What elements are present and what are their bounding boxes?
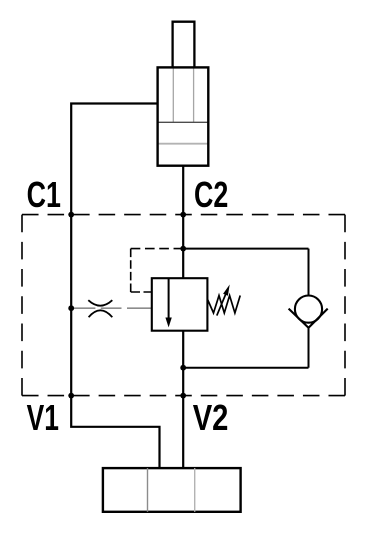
wire from C2 pilot node to check valve top bbox=[183, 248, 308, 250]
node C1 (junction dot) bbox=[68, 212, 74, 218]
check valve ball bbox=[295, 296, 322, 323]
manifold block bbox=[103, 468, 241, 512]
valve envelope (dashed boundary box) bbox=[22, 215, 345, 396]
counterbalance valve body (square) bbox=[152, 278, 208, 331]
svg-text:V2: V2 bbox=[193, 397, 229, 438]
flow arrow inside valve bbox=[165, 278, 171, 327]
node V2 (junction dot) bbox=[180, 393, 186, 399]
pilot drain line (gray dashed) from C1 line through orifice to valve bbox=[71, 307, 152, 309]
orifice (restrictor arcs) bbox=[88, 300, 112, 317]
cylinder body bbox=[158, 67, 209, 165]
wire from cylinder rod-side port to C1 and down to V1 and manifold bbox=[71, 104, 159, 469]
cylinder piston bbox=[158, 121, 209, 123]
node check valve bottom junction bbox=[180, 365, 186, 371]
wire check valve upper vertical bbox=[308, 249, 310, 296]
svg-text:C1: C1 bbox=[27, 174, 61, 215]
cylinder cushion line bbox=[158, 143, 209, 145]
wire from check valve bottom to V2 line bbox=[183, 367, 308, 369]
cylinder rod bbox=[173, 22, 195, 68]
spring adjustment arrow bbox=[217, 285, 230, 316]
adjustable spring bbox=[208, 296, 241, 314]
check valve seat bbox=[289, 309, 328, 328]
node pilot junction on C2 line bbox=[180, 246, 186, 252]
svg-text:C2: C2 bbox=[194, 174, 228, 215]
manifold block divider left bbox=[147, 468, 149, 512]
cylinder rod lines inside body bbox=[173, 67, 193, 122]
manifold block divider right bbox=[194, 468, 196, 512]
svg-text:V1: V1 bbox=[27, 397, 59, 438]
wire from cylinder piston-side port down to valve (C2 line) bbox=[182, 166, 184, 279]
wire from valve bottom to manifold block (V2 line) bbox=[182, 331, 184, 468]
node orifice junction on C1 line bbox=[68, 305, 74, 311]
wire check valve lower vertical bbox=[308, 328, 310, 368]
node V1 (junction dot) bbox=[68, 393, 74, 399]
node C2 (junction dot) bbox=[180, 212, 186, 218]
pilot line (dashed) from C2 node to valve pilot port bbox=[131, 249, 184, 292]
